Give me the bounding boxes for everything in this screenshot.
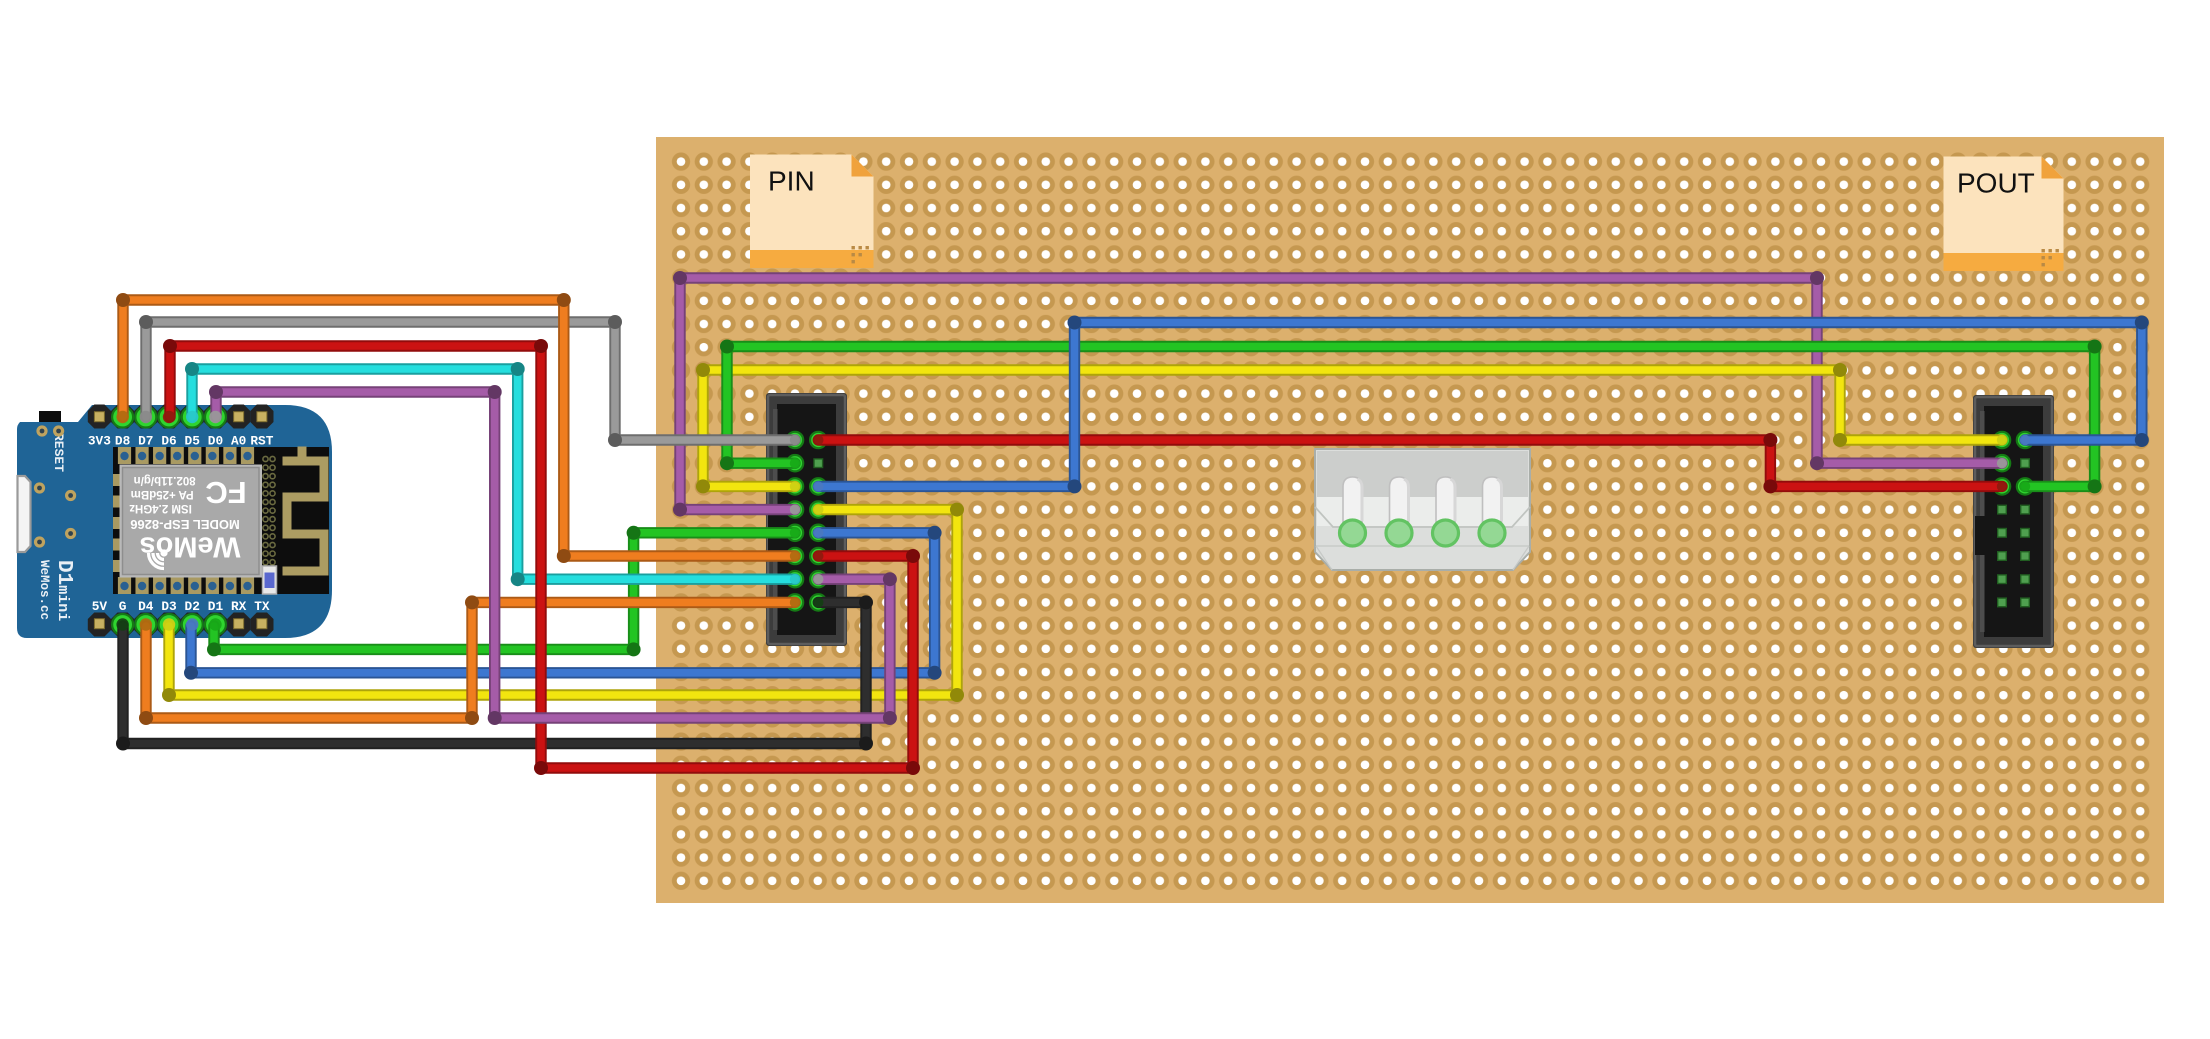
wire blue D2 to PIN-R5 xyxy=(184,526,942,680)
svg-text:D5: D5 xyxy=(185,434,201,449)
svg-text:WeMos.cc: WeMos.cc xyxy=(37,560,51,620)
wire blue PIN-R3 to POUT-R1 xyxy=(818,316,2149,494)
IDC header POUT xyxy=(1973,395,2054,648)
wire yellow PIN-L3 to POUT-L1 xyxy=(696,363,2002,493)
svg-text:5V: 5V xyxy=(92,599,108,614)
wire green D1 to PIN-L5 xyxy=(207,526,795,657)
svg-text:D8: D8 xyxy=(115,434,130,449)
svg-text:A0: A0 xyxy=(231,434,246,449)
svg-text:ISM 2.4GHz: ISM 2.4GHz xyxy=(129,502,192,514)
wire purple D0 to PIN-R7 xyxy=(209,385,897,725)
vias xyxy=(36,425,47,436)
svg-text:D1: D1 xyxy=(208,599,224,614)
antenna trace xyxy=(287,451,324,571)
svg-text:PIN: PIN xyxy=(768,166,815,197)
wire cyan D5 to PIN-L7 xyxy=(185,362,795,586)
svg-text:D6: D6 xyxy=(161,434,176,449)
wire green PIN-L2 to POUT-R3 xyxy=(720,340,2102,494)
svg-text:802.11b/g/n: 802.11b/g/n xyxy=(134,474,196,486)
wire orange D8 to PIN-L6 xyxy=(116,293,795,563)
connector J1 4-pin xyxy=(1315,449,1530,570)
svg-text:RESET: RESET xyxy=(51,433,66,472)
svg-text:POUT: POUT xyxy=(1957,168,2035,199)
svg-text:3V3: 3V3 xyxy=(88,434,111,449)
WeMos D1 mini board xyxy=(17,405,332,638)
wire purple PIN-L4 to POUT-L2 xyxy=(673,271,2002,517)
pin labels xyxy=(88,434,274,615)
note label POUT xyxy=(1944,157,2064,272)
pin headers bottom row xyxy=(88,613,274,637)
svg-text:D2: D2 xyxy=(185,599,200,614)
module vias xyxy=(263,456,275,573)
svg-text:D1mini: D1mini xyxy=(52,560,75,621)
pin headers top row xyxy=(88,405,274,429)
wire red PIN-R1 to POUT-L3 xyxy=(818,433,2002,493)
svg-text:RST: RST xyxy=(250,434,273,449)
svg-text:D4: D4 xyxy=(138,599,154,614)
wire gray D7 to PIN-L1 xyxy=(139,315,795,447)
reset button xyxy=(39,411,61,422)
svg-text:MODEL ESP-8266: MODEL ESP-8266 xyxy=(130,517,240,532)
note label PIN xyxy=(750,155,874,269)
pin connection rings xyxy=(94,407,2033,636)
svg-text:FC: FC xyxy=(205,475,246,510)
shield silkscreen texts xyxy=(129,474,247,569)
micro-usb connector xyxy=(18,476,31,552)
perfboard xyxy=(656,137,2164,903)
IDC header PIN xyxy=(766,393,847,646)
svg-text:D7: D7 xyxy=(138,434,153,449)
svg-text:D0: D0 xyxy=(208,434,223,449)
svg-text:G: G xyxy=(119,599,127,614)
smd component xyxy=(263,566,277,594)
wire orange D4 to PIN-L8 xyxy=(139,595,795,725)
svg-text:RX: RX xyxy=(231,599,247,614)
wire yellow D3 to PIN-R4 xyxy=(162,503,964,702)
ESP-8266 module U1 xyxy=(113,447,329,594)
wire red D6 to PIN-R6 xyxy=(163,339,920,775)
wire black G to PIN-R8 xyxy=(116,595,873,750)
svg-text:D3: D3 xyxy=(161,599,177,614)
svg-text:PA +25dBm: PA +25dBm xyxy=(131,488,194,500)
pin connection centers xyxy=(116,411,2030,631)
svg-text:TX: TX xyxy=(254,599,270,614)
